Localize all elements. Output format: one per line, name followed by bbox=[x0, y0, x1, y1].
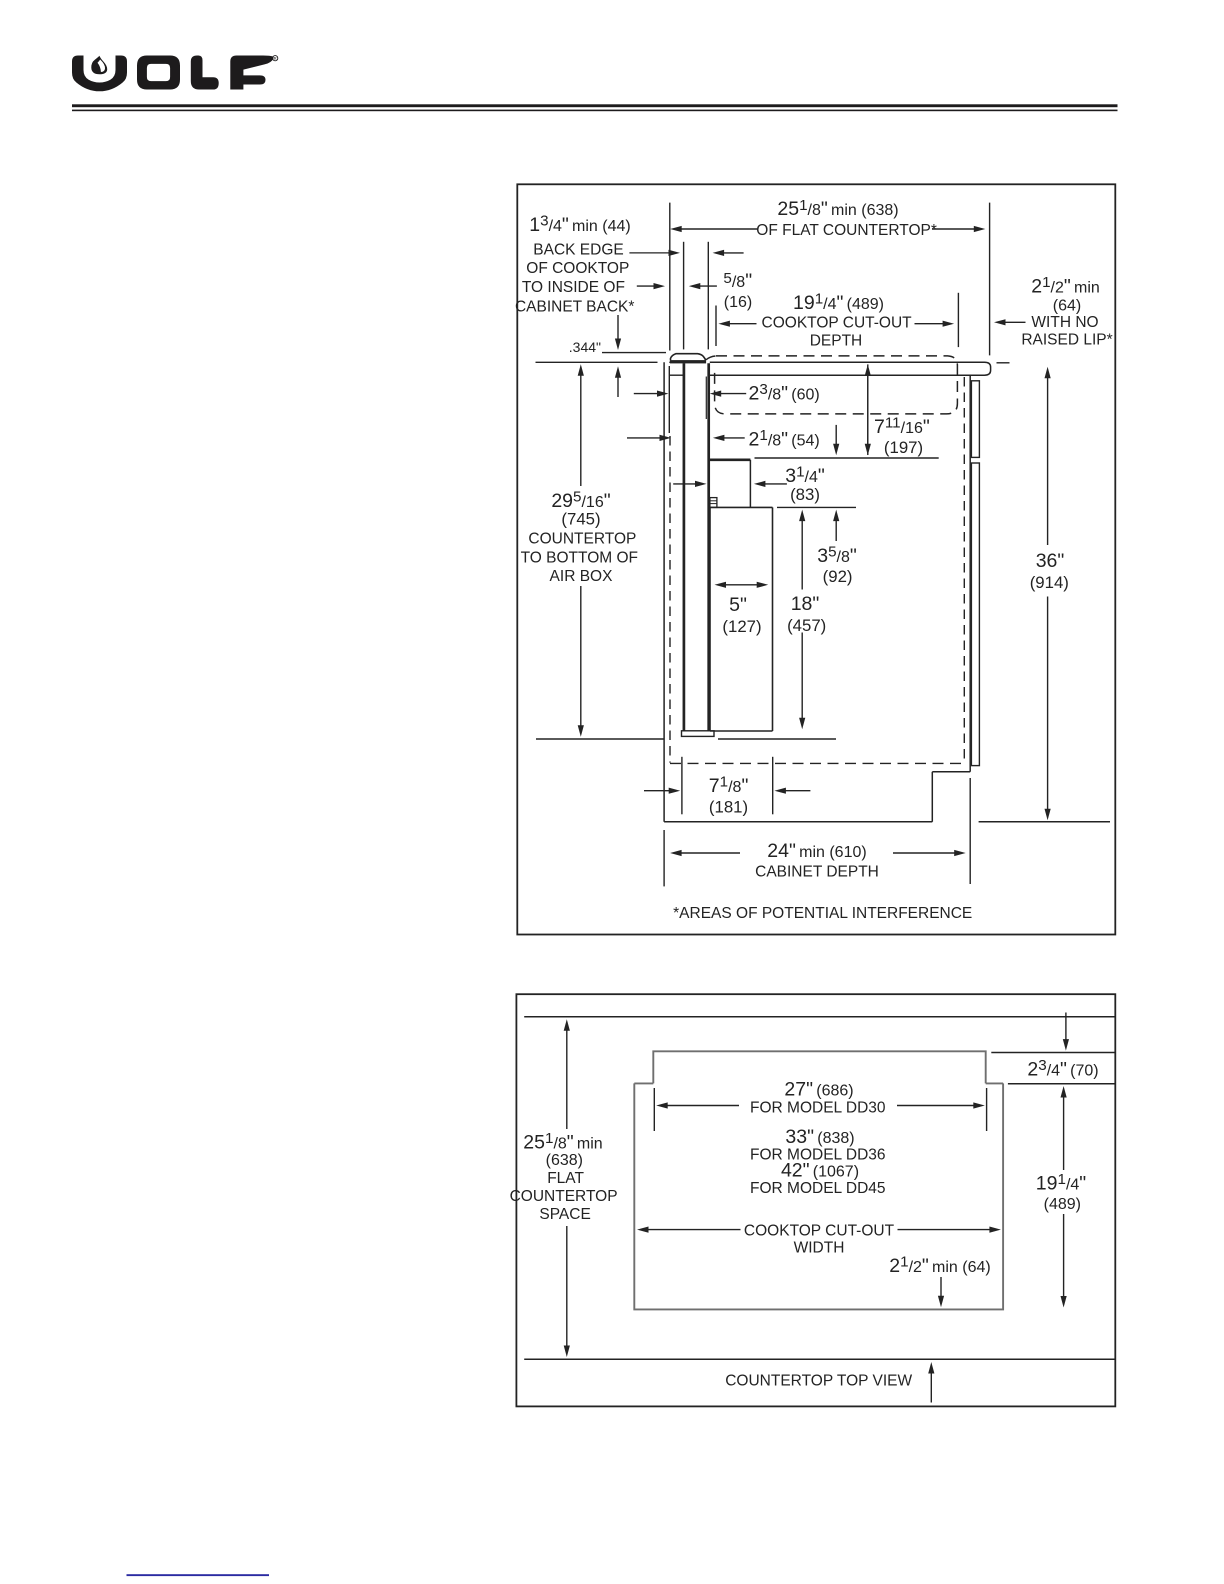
svg-text:COOKTOP CUT-OUT: COOKTOP CUT-OUT bbox=[762, 315, 913, 332]
svg-text:(489): (489) bbox=[1044, 1196, 1081, 1213]
svg-text:TO BOTTOM OF: TO BOTTOM OF bbox=[521, 550, 638, 567]
svg-text:33" (838): 33" (838) bbox=[785, 1126, 854, 1148]
svg-text:COUNTERTOP: COUNTERTOP bbox=[510, 1188, 618, 1205]
svg-text:FOR MODEL DD36: FOR MODEL DD36 bbox=[750, 1147, 886, 1164]
svg-text:(92): (92) bbox=[823, 567, 853, 586]
svg-text:(745): (745) bbox=[561, 510, 600, 529]
svg-text:36": 36" bbox=[1036, 550, 1065, 572]
svg-text:SPACE: SPACE bbox=[539, 1206, 590, 1223]
svg-text:R: R bbox=[274, 56, 277, 61]
svg-text:COUNTERTOP: COUNTERTOP bbox=[528, 531, 636, 548]
svg-text:(197): (197) bbox=[884, 438, 923, 457]
svg-text:(457): (457) bbox=[787, 616, 826, 635]
svg-text:(181): (181) bbox=[709, 798, 748, 817]
svg-text:RAISED LIP*: RAISED LIP* bbox=[1021, 332, 1112, 349]
svg-text:5": 5" bbox=[729, 594, 747, 616]
svg-text:(16): (16) bbox=[724, 294, 752, 311]
svg-text:WIDTH: WIDTH bbox=[794, 1239, 845, 1256]
svg-text:COOKTOP CUT-OUT: COOKTOP CUT-OUT bbox=[744, 1223, 895, 1240]
svg-text:(64): (64) bbox=[1053, 298, 1081, 315]
svg-text:OF COOKTOP: OF COOKTOP bbox=[526, 260, 629, 277]
svg-text:42" (1067): 42" (1067) bbox=[781, 1160, 859, 1182]
svg-text:(127): (127) bbox=[722, 617, 761, 636]
svg-text:(914): (914) bbox=[1030, 573, 1069, 592]
svg-text:AIR BOX: AIR BOX bbox=[550, 568, 614, 585]
svg-text:FLAT: FLAT bbox=[547, 1170, 584, 1187]
svg-text:COUNTERTOP TOP VIEW: COUNTERTOP TOP VIEW bbox=[725, 1373, 912, 1390]
svg-text:WITH NO: WITH NO bbox=[1031, 314, 1098, 331]
svg-text:CABINET BACK*: CABINET BACK* bbox=[515, 299, 634, 316]
svg-text:TO INSIDE OF: TO INSIDE OF bbox=[522, 279, 625, 296]
svg-text:(638): (638) bbox=[546, 1152, 583, 1169]
svg-text:FOR MODEL DD30: FOR MODEL DD30 bbox=[750, 1099, 886, 1116]
svg-text:*AREAS OF POTENTIAL INTERFEREN: *AREAS OF POTENTIAL INTERFERENCE bbox=[673, 905, 972, 922]
svg-text:CABINET DEPTH: CABINET DEPTH bbox=[755, 864, 879, 881]
svg-text:24" min (610): 24" min (610) bbox=[767, 840, 866, 862]
svg-text:.344": .344" bbox=[569, 339, 601, 355]
svg-text:DEPTH: DEPTH bbox=[810, 333, 863, 350]
svg-text:18": 18" bbox=[791, 593, 820, 615]
svg-text:27" (686): 27" (686) bbox=[784, 1079, 853, 1101]
svg-text:(83): (83) bbox=[790, 485, 820, 504]
svg-text:OF FLAT COUNTERTOP*: OF FLAT COUNTERTOP* bbox=[756, 222, 937, 239]
svg-text:BACK EDGE: BACK EDGE bbox=[533, 242, 623, 259]
svg-text:FOR MODEL DD45: FOR MODEL DD45 bbox=[750, 1180, 886, 1197]
